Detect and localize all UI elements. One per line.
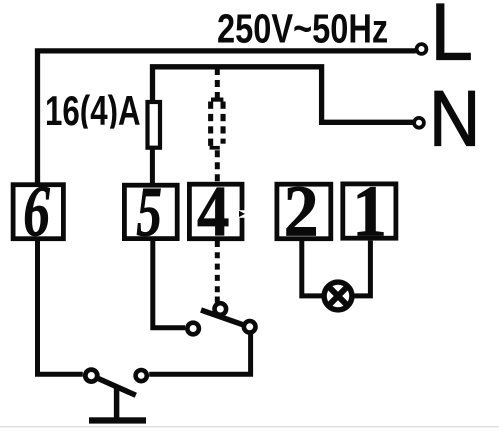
switch S1 contact middle bbox=[215, 303, 227, 315]
wire box 5 down to switch contact bbox=[153, 241, 185, 328]
terminal box 4 bbox=[189, 184, 242, 239]
lamp HL1 circle bbox=[324, 282, 352, 310]
terminal box 5 bbox=[124, 185, 177, 238]
lamp HL1 cross bbox=[328, 286, 348, 306]
svg-text:5: 5 bbox=[136, 174, 162, 252]
wire N branch: fuse top, across, down, to N bbox=[153, 67, 414, 123]
switch S1 contact right bbox=[244, 321, 256, 333]
wire box 2 to lamp bbox=[302, 241, 322, 296]
wire stub to contact bbox=[215, 297, 220, 303]
switch S2 contact left bbox=[85, 370, 97, 382]
fuse F1 16(4)A bbox=[148, 102, 161, 148]
svg-text:250V~50Hz: 250V~50Hz bbox=[217, 5, 388, 51]
wire bottom right run up to switch S1 bbox=[149, 334, 250, 374]
terminal N circle bbox=[414, 118, 424, 128]
svg-text:2: 2 bbox=[284, 171, 319, 252]
cursor arrow artifact bbox=[238, 210, 245, 218]
wire L top with left drop to box 6 bbox=[38, 51, 416, 183]
switch S2 contact right bbox=[136, 370, 147, 381]
switch S2 lever bbox=[96, 378, 136, 396]
svg-text:16(4)A: 16(4)A bbox=[45, 86, 141, 134]
svg-text:6: 6 bbox=[23, 171, 50, 252]
terminal box 1 bbox=[343, 184, 396, 238]
svg-text:N: N bbox=[429, 74, 480, 162]
wire fuse to box 5 bbox=[150, 148, 155, 183]
wire dashed box 4 down to switch contact bbox=[215, 241, 220, 293]
switch S1 lever bbox=[201, 310, 247, 326]
switch S2 actuator bar bbox=[89, 417, 146, 423]
wire dashed sensor drop from N branch bbox=[215, 68, 220, 99]
wire box 6 down to bottom left bbox=[38, 241, 83, 374]
terminal box 2 bbox=[277, 184, 331, 239]
sensor element dashed rect bbox=[208, 98, 226, 150]
baseline rule bbox=[0, 426, 499, 427]
terminal box 6 bbox=[13, 185, 63, 239]
svg-text:L: L bbox=[431, 0, 473, 77]
svg-text:4: 4 bbox=[197, 171, 229, 251]
wire dashed sensor to box 4 bbox=[215, 150, 220, 182]
switch S2 actuator stem bbox=[114, 386, 120, 419]
svg-text:1: 1 bbox=[352, 172, 387, 252]
switch S1 contact left bbox=[187, 323, 199, 335]
wire box 1 to lamp bbox=[354, 241, 370, 296]
terminal L circle bbox=[417, 44, 427, 54]
